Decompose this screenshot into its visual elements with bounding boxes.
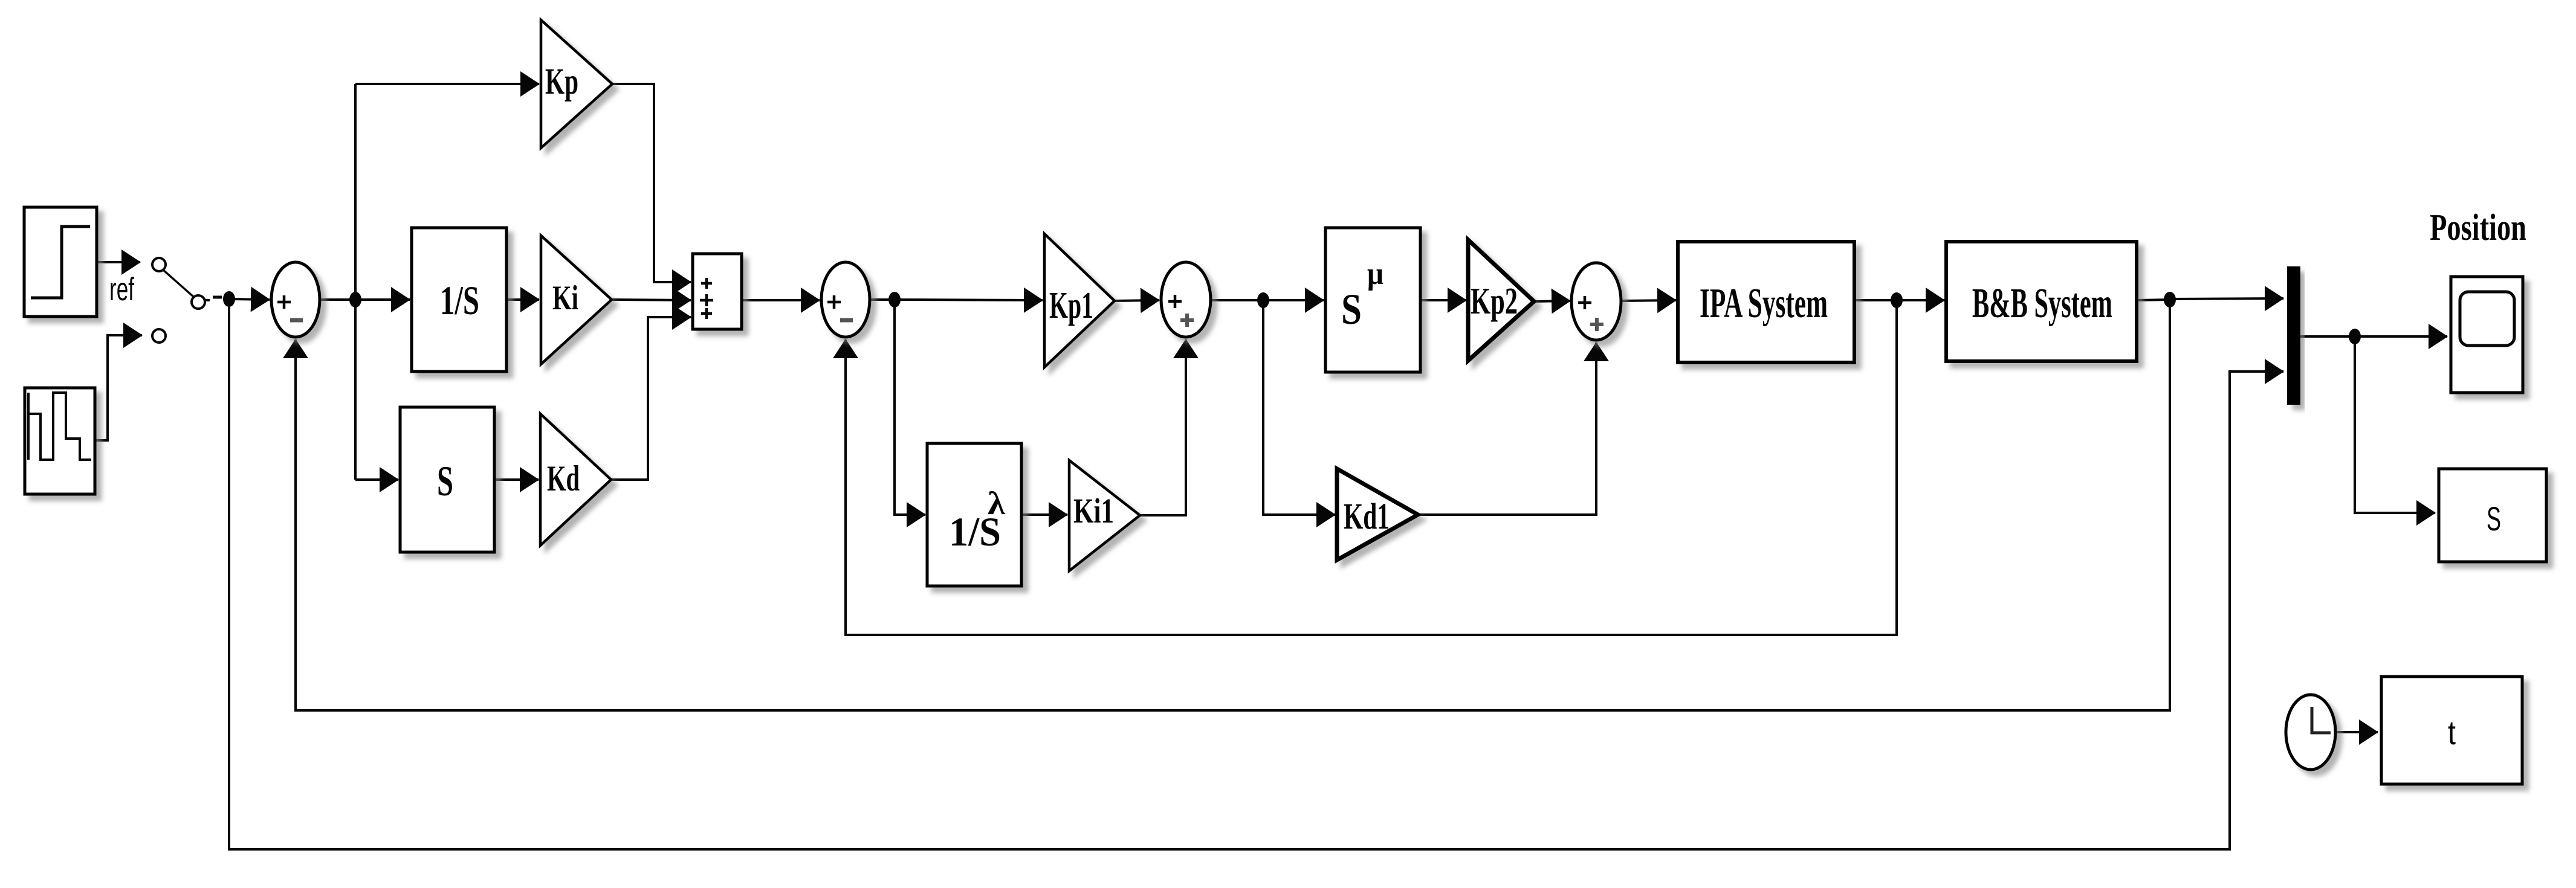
sum S3 plus sign left: [1168, 295, 1182, 308]
wire gain Kp1 to sum3: [1115, 300, 1159, 301]
junction dot ref: [223, 291, 235, 307]
sum S4 plus sign left: [1578, 296, 1591, 309]
sum S3 plus sign bottom: [1180, 314, 1194, 327]
svg-text:λ: λ: [988, 485, 1006, 521]
wire node ref to sum1: [229, 299, 270, 300]
sum S2 plus sign: [827, 295, 841, 309]
clock: [2286, 695, 2335, 770]
svg-text:S: S: [437, 458, 453, 505]
manual switch port circle 1: [152, 258, 166, 271]
svg-text:Ki1: Ki1: [1073, 491, 1114, 530]
wire add block to sum2: [742, 299, 820, 301]
sum S1 minus sign: [290, 318, 303, 323]
junction dot node A: [349, 292, 361, 307]
scope block: [2451, 277, 2523, 393]
svg-text:Kp1: Kp1: [1049, 285, 1093, 326]
wire clock to workspace t: [2335, 731, 2378, 733]
block S derivative: [400, 407, 494, 552]
wire 1/S^lambda to gain Ki1: [1021, 513, 1067, 516]
svg-text:μ: μ: [1367, 257, 1383, 291]
add block plus signs: [701, 278, 712, 289]
workspace block t: [2381, 677, 2522, 784]
block B&B System: [1946, 242, 2137, 361]
gain Ki1 triangle: [1069, 460, 1140, 571]
block S^mu: [1325, 228, 1420, 372]
gain Kd1 triangle: [1337, 469, 1418, 560]
gain Kp1 triangle: [1044, 234, 1115, 367]
svg-text:S: S: [1341, 285, 1362, 333]
wire S^mu to gain Kp2: [1420, 299, 1466, 301]
svg-text:B&B System: B&B System: [1972, 280, 2112, 327]
svg-text:S: S: [2487, 500, 2501, 538]
wire gain Kp2 to sum4: [1534, 301, 1570, 301]
block 1/S integrator: [412, 228, 506, 372]
wire node A to block S: [355, 478, 398, 481]
junction dot node C: [1257, 292, 1269, 308]
sum S2: [821, 262, 870, 337]
wire gain Kp to add block input1: [612, 84, 691, 282]
wire 1/S to gain Ki: [506, 298, 539, 301]
mux bar: [2287, 266, 2300, 405]
wire IPA System output to node D: [1854, 299, 1897, 301]
wire node F to workspace S: [2355, 336, 2435, 513]
add block: [693, 254, 742, 329]
svg-text:1/S: 1/S: [440, 277, 479, 323]
block 1/S^lambda: [927, 443, 1021, 586]
wire node B to block 1/S^lambda: [895, 300, 925, 515]
svg-text:ref: ref: [109, 271, 135, 307]
svg-text:Kp: Kp: [545, 62, 578, 102]
svg-text:Kd1: Kd1: [1344, 497, 1390, 537]
wire node F to scope Position: [2355, 335, 2447, 338]
wire node A to gain Kp: [355, 83, 539, 85]
wire node B to gain Kp1: [895, 300, 1043, 300]
wire node E to mux input1: [2170, 298, 2283, 299]
svg-text:IPA System: IPA System: [1700, 280, 1828, 327]
wire sum3 output to node C: [1211, 299, 1263, 301]
wire node D to block B&B System: [1897, 299, 1944, 301]
sum S4: [1571, 263, 1621, 340]
svg-text:Kd: Kd: [547, 458, 580, 498]
wire step to switch port1: [97, 261, 140, 263]
wire branch vertical at node A: [354, 84, 357, 480]
block IPA System: [1678, 242, 1854, 362]
wire sum1 output to node A: [320, 298, 355, 301]
wire S to gain Kd: [494, 478, 539, 481]
junction dot node F: [2349, 329, 2361, 344]
wire ref to mux input2 (bottom outer line): [229, 299, 2283, 849]
junction dot node B: [888, 292, 901, 307]
wire sum4 to block IPA System: [1621, 300, 1676, 301]
wire gain Kd to add block input3: [611, 317, 691, 480]
switch output dash: [204, 299, 210, 301]
gain Kp triangle: [541, 20, 612, 148]
wire B&B System output to node E: [2137, 300, 2170, 300]
wire signal builder to switch port2: [95, 335, 142, 440]
wire sum2 output to node B: [870, 298, 895, 301]
wire node E feedback to sum1 bottom: [296, 300, 2170, 710]
sum S2 minus sign: [840, 318, 853, 323]
sum S1: [271, 262, 320, 337]
source block signal builder: [25, 388, 95, 494]
gain Kd triangle: [540, 414, 611, 545]
gain Ki triangle: [541, 236, 612, 364]
wire mux output to node F: [2300, 335, 2355, 338]
wire node C to block S^mu: [1263, 299, 1324, 301]
sum S4 plus sign bottom: [1590, 318, 1604, 331]
junction dot node D: [1891, 292, 1903, 308]
manual switch port circle 3: [152, 329, 166, 343]
junction dot node E: [2164, 292, 2176, 307]
wire gain Ki to add block input2: [612, 300, 691, 300]
gain Kp2 triangle: [1468, 240, 1534, 361]
wire gain Ki1 to sum3 bottom: [1140, 339, 1186, 515]
switch lever: [163, 269, 194, 297]
sum S3: [1161, 262, 1211, 337]
wire gain Kd1 to sum4 bottom: [1418, 343, 1596, 515]
wire node D feedback to sum2 bottom: [846, 300, 1897, 635]
wire node C to gain Kd1: [1263, 300, 1335, 515]
workspace block S: [2439, 469, 2546, 562]
sum S1 plus sign: [277, 295, 291, 309]
manual switch port circle 2: [192, 295, 205, 309]
wire node A to block 1/S: [355, 298, 410, 301]
svg-text:t: t: [2448, 713, 2456, 751]
source block step (ref): [24, 207, 97, 317]
svg-text:Ki: Ki: [552, 279, 578, 317]
svg-text:Kp2: Kp2: [1471, 281, 1518, 322]
svg-text:Position: Position: [2430, 207, 2526, 248]
